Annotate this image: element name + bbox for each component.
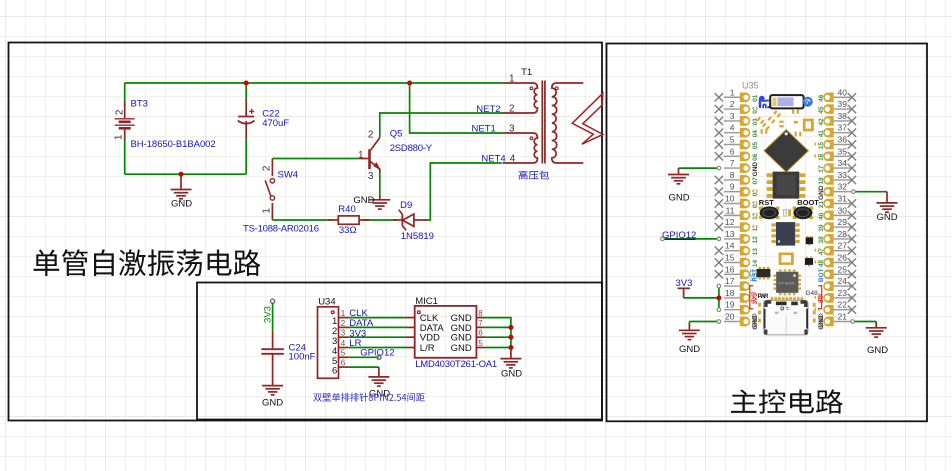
wire: U34.5 GPIO12 stub bbox=[349, 356, 379, 358]
svg-text:46: 46 bbox=[818, 94, 825, 102]
svg-text:45: 45 bbox=[818, 106, 825, 114]
svg-text:1: 1 bbox=[509, 73, 515, 84]
svg-text:41: 41 bbox=[818, 130, 825, 138]
svg-text:06: 06 bbox=[752, 153, 759, 161]
U35 board: main SoC diamond bbox=[764, 130, 809, 173]
svg-text:7: 7 bbox=[478, 319, 483, 328]
svg-text:38: 38 bbox=[818, 236, 825, 244]
svg-text:6: 6 bbox=[478, 329, 483, 338]
U35 board: 5V jumper bracket bbox=[818, 286, 821, 309]
node: pin17 bbox=[717, 284, 721, 288]
power flag 3V3 bbox=[678, 287, 690, 289]
svg-text:2: 2 bbox=[341, 319, 346, 328]
svg-text:13: 13 bbox=[725, 229, 735, 239]
svg-text:L/R: L/R bbox=[420, 343, 435, 354]
wire: U34.1 CLK to MIC1 bbox=[349, 317, 406, 319]
wire: top power rail from BT3 to T1 pin1 bbox=[125, 82, 503, 84]
ground (U34 pin6 GND) bbox=[368, 377, 389, 386]
svg-text:LMD4030T261-OA1: LMD4030T261-OA1 bbox=[415, 359, 497, 370]
svg-text:GND: GND bbox=[451, 343, 472, 354]
svg-text:BT3: BT3 bbox=[131, 99, 148, 110]
switch SW4 bbox=[270, 179, 274, 183]
svg-text:31: 31 bbox=[838, 194, 848, 204]
svg-text:5: 5 bbox=[478, 339, 483, 348]
svg-text:40: 40 bbox=[838, 87, 848, 97]
svg-text:26: 26 bbox=[838, 253, 848, 263]
ground (Q5 emitter GND) bbox=[379, 195, 381, 200]
svg-text:22: 22 bbox=[838, 300, 848, 310]
junction: MIC1 gnd row3 bbox=[508, 335, 513, 340]
junction: MIC1 gnd row2 bbox=[508, 325, 513, 330]
node: GPIO12 dead-end bbox=[377, 355, 381, 359]
svg-text:3: 3 bbox=[509, 124, 515, 135]
svg-text:MIC1: MIC1 bbox=[415, 296, 438, 307]
U35 board: crystal bbox=[779, 253, 794, 265]
svg-text:17: 17 bbox=[725, 276, 735, 286]
svg-text:27: 27 bbox=[838, 241, 848, 251]
svg-text:35: 35 bbox=[838, 146, 848, 156]
wire: R40 to D9 bbox=[363, 219, 396, 221]
svg-text:5V: 5V bbox=[817, 293, 824, 302]
svg-text:2: 2 bbox=[368, 129, 374, 140]
value 高压包 (high voltage pack) bbox=[519, 170, 550, 179]
U35 board: sot23 part A bbox=[806, 237, 813, 244]
svg-text:28: 28 bbox=[838, 229, 848, 239]
U35 board: RST push button bbox=[759, 207, 763, 210]
svg-text:16: 16 bbox=[725, 264, 735, 274]
svg-text:2: 2 bbox=[509, 103, 515, 114]
svg-text:1: 1 bbox=[730, 87, 735, 97]
wire: D9 to NET4 riser to T1 pin4 bbox=[426, 163, 502, 220]
svg-text:21: 21 bbox=[838, 312, 848, 322]
junction: NET1 branch on top rail bbox=[407, 81, 412, 86]
svg-text:07: 07 bbox=[752, 177, 759, 185]
svg-text:7: 7 bbox=[730, 158, 735, 168]
svg-text:1: 1 bbox=[341, 309, 346, 318]
wire: GPIO12 to U35 pin13 bbox=[662, 238, 717, 240]
resistor R40 bbox=[328, 219, 338, 221]
wire: U34.6 to GND bbox=[349, 366, 379, 368]
svg-text:GPIO12: GPIO12 bbox=[360, 347, 394, 358]
svg-text:15: 15 bbox=[725, 253, 735, 263]
svg-text:6: 6 bbox=[341, 359, 346, 368]
connector U34 bbox=[318, 307, 339, 379]
wire: Q5 emitter to GND bbox=[379, 172, 381, 196]
svg-text:GND: GND bbox=[876, 212, 897, 223]
svg-text:39: 39 bbox=[818, 224, 825, 232]
svg-text:11: 11 bbox=[726, 205, 735, 215]
svg-text:6: 6 bbox=[332, 366, 337, 377]
svg-text:5: 5 bbox=[341, 349, 346, 358]
node: pin21 bbox=[851, 320, 855, 324]
svg-text:42: 42 bbox=[818, 118, 825, 126]
svg-text:19: 19 bbox=[725, 300, 735, 310]
wire: MIC1 GND bus bbox=[485, 318, 511, 348]
ground (MIC1 GND) bbox=[510, 348, 512, 359]
svg-text:3: 3 bbox=[341, 329, 346, 338]
wire: U35 pin7 to GND bbox=[679, 167, 718, 169]
U35 board: blue antenna logo bbox=[759, 96, 765, 102]
svg-text:TS-1088-AR02016: TS-1088-AR02016 bbox=[243, 224, 319, 235]
svg-text:RST: RST bbox=[759, 198, 774, 207]
svg-text:U35: U35 bbox=[742, 81, 759, 91]
svg-text:18: 18 bbox=[818, 177, 825, 185]
svg-text:33Ω: 33Ω bbox=[339, 225, 357, 236]
U35 board: BOOT push button bbox=[793, 207, 797, 210]
no-connect crosses (U35 right pins) bbox=[848, 93, 856, 101]
svg-text:5: 5 bbox=[730, 135, 735, 145]
U35 board: USB interface QFN chip bbox=[776, 272, 798, 293]
title 单管自激振荡电路 bbox=[34, 249, 261, 276]
U35 board: mid passives bbox=[784, 209, 787, 216]
wire: C22 bottom stub bbox=[245, 138, 247, 174]
svg-text:G48: G48 bbox=[806, 290, 819, 297]
node: pin19 bbox=[717, 308, 721, 312]
svg-text:PWR: PWR bbox=[758, 294, 769, 300]
svg-text:14: 14 bbox=[725, 241, 735, 251]
junction: GND tap on bottom rail bbox=[179, 172, 184, 177]
node: C24 top dead-end bbox=[271, 299, 275, 303]
U35 board: USB-C connector bbox=[764, 300, 808, 335]
wire: U35 pin32 to GND bbox=[854, 191, 887, 193]
battery BT3 bbox=[124, 101, 126, 118]
U35 board: regulator sot23-5 bbox=[757, 269, 771, 277]
ground (U35 pin20) bbox=[688, 324, 690, 330]
svg-text:U34: U34 bbox=[318, 297, 335, 308]
high-voltage spark symbol bbox=[572, 93, 603, 144]
svg-text:34: 34 bbox=[838, 158, 848, 168]
node: GPIO12 wire right end bbox=[717, 237, 721, 241]
diode D9 bbox=[394, 219, 403, 221]
wire: BT3 bottom vertical bbox=[124, 140, 126, 175]
wire: C22 top stub bbox=[245, 83, 247, 99]
svg-text:3V3: 3V3 bbox=[262, 306, 273, 323]
frame: right circuit sheet box bbox=[607, 44, 928, 422]
svg-text:23: 23 bbox=[838, 288, 848, 298]
svg-text:BH-18650-B1BA002: BH-18650-B1BA002 bbox=[131, 139, 216, 150]
transformer T1 bbox=[503, 83, 538, 113]
U35 board: small passives along pin rows bbox=[753, 190, 758, 193]
node: GPIO12 wire left end bbox=[661, 237, 665, 241]
wire: SW4 bottom to rail bbox=[271, 203, 273, 220]
svg-text:SW4: SW4 bbox=[278, 169, 299, 180]
svg-text:01: 01 bbox=[752, 94, 759, 102]
wire: NET2 from Q5 collector to T1 pin2 bbox=[380, 113, 503, 138]
svg-text:4: 4 bbox=[730, 123, 735, 133]
svg-text:Q5: Q5 bbox=[390, 129, 403, 140]
svg-text:NET2: NET2 bbox=[476, 104, 500, 115]
svg-text:3V3: 3V3 bbox=[751, 291, 758, 303]
svg-text:2SD880-Y: 2SD880-Y bbox=[390, 143, 433, 154]
node: pin32 bbox=[852, 190, 856, 194]
svg-text:39: 39 bbox=[838, 99, 848, 109]
U35 board: 3V3 jumper bracket bbox=[750, 286, 753, 309]
svg-text:14: 14 bbox=[752, 260, 759, 268]
svg-text:3: 3 bbox=[730, 111, 735, 121]
svg-text:RST: RST bbox=[750, 269, 756, 281]
svg-text:32: 32 bbox=[838, 182, 848, 192]
svg-text:29: 29 bbox=[838, 217, 848, 227]
svg-text:NET4: NET4 bbox=[481, 153, 505, 164]
svg-text:1N5819: 1N5819 bbox=[401, 231, 434, 242]
U35 board: passives cluster bbox=[756, 117, 764, 125]
svg-text:2: 2 bbox=[115, 109, 126, 115]
svg-text:30: 30 bbox=[838, 205, 848, 215]
svg-text:40: 40 bbox=[818, 212, 825, 220]
svg-text:13: 13 bbox=[752, 248, 759, 256]
wire: BT3 left vertical bbox=[124, 83, 126, 102]
svg-text:6: 6 bbox=[730, 146, 735, 156]
capacitor C22 bbox=[245, 99, 247, 117]
wire: U35 pin21 to GND bbox=[854, 321, 876, 323]
svg-text:9: 9 bbox=[730, 182, 735, 192]
U35 board: blue button/antenna circle bbox=[803, 97, 813, 107]
capacitor C24 bbox=[272, 331, 274, 348]
wire: U34.4 LR to MIC1 bbox=[349, 347, 406, 349]
svg-text:GND: GND bbox=[501, 368, 522, 379]
svg-text:D9: D9 bbox=[400, 200, 412, 211]
module U35 right pin pads and numbers bbox=[833, 96, 851, 98]
svg-text:GND: GND bbox=[668, 193, 689, 204]
svg-text:8: 8 bbox=[478, 309, 483, 318]
module U35 left pin pads and numbers bbox=[724, 96, 741, 98]
U35 board: SMD LED top bbox=[770, 95, 803, 108]
wire: U34.2 DATA to MIC1 bbox=[349, 326, 406, 328]
svg-text:1: 1 bbox=[114, 134, 125, 140]
svg-text:GND: GND bbox=[867, 345, 888, 356]
svg-text:2: 2 bbox=[262, 165, 273, 171]
wire: C24 top bbox=[272, 303, 274, 331]
wire: U35 pin20 to GND bbox=[689, 321, 717, 323]
wire: SW4 top stub bbox=[271, 159, 273, 177]
svg-text:8: 8 bbox=[730, 170, 735, 180]
svg-text:12: 12 bbox=[752, 236, 759, 244]
wire: U34.3 3V3 to MIC1 bbox=[349, 336, 406, 338]
frame: inner audio sub-box bbox=[197, 283, 602, 420]
svg-text:GND: GND bbox=[818, 313, 825, 328]
frame: left circuit sheet box bbox=[9, 43, 603, 421]
ground (C24 GND) bbox=[262, 386, 283, 395]
wire: 3V3 to U35 pins 17-19 bbox=[684, 297, 719, 299]
svg-text:1: 1 bbox=[262, 208, 273, 214]
svg-text:05: 05 bbox=[752, 142, 759, 150]
svg-text:37: 37 bbox=[838, 123, 848, 133]
svg-text:33: 33 bbox=[838, 170, 848, 180]
svg-text:04: 04 bbox=[752, 130, 759, 138]
wire: bottom rail SW4 to R40 bbox=[272, 219, 332, 221]
ground (U35 pin7) bbox=[678, 168, 680, 174]
junction: C22 top rail bbox=[244, 81, 249, 86]
svg-text:12: 12 bbox=[725, 217, 735, 227]
node: pin7 wire end bbox=[717, 166, 721, 170]
svg-text:T1: T1 bbox=[521, 67, 532, 78]
svg-text:470uF: 470uF bbox=[262, 118, 289, 129]
wire: base wire SW4 to Q5 bbox=[272, 158, 358, 160]
svg-text:4: 4 bbox=[341, 339, 346, 348]
junction: pin18 3V3 bbox=[716, 295, 721, 300]
svg-text:NET1: NET1 bbox=[472, 123, 496, 134]
svg-text:20: 20 bbox=[725, 312, 735, 322]
svg-text:17: 17 bbox=[818, 165, 825, 173]
svg-text:18: 18 bbox=[725, 288, 735, 298]
svg-text:3V3: 3V3 bbox=[676, 278, 693, 289]
ground (U35 pin32) bbox=[886, 192, 888, 203]
svg-text:4: 4 bbox=[510, 153, 516, 164]
no-connect crosses (U35 left pins) bbox=[715, 93, 723, 101]
transistor Q5 bbox=[368, 149, 371, 169]
svg-text:3: 3 bbox=[368, 171, 374, 182]
node: pin20 bbox=[717, 320, 721, 324]
junction: MIC1 gnd row4 bbox=[508, 345, 513, 350]
svg-text:36: 36 bbox=[838, 135, 848, 145]
svg-text:10: 10 bbox=[725, 194, 735, 204]
svg-text:GND: GND bbox=[353, 195, 374, 206]
U35 board: flash chip (SOIC-8) bbox=[773, 172, 800, 199]
note 双壁单排排针8PIN2.54间距 bbox=[313, 393, 424, 402]
svg-text:38: 38 bbox=[838, 111, 848, 121]
svg-text:100nF: 100nF bbox=[289, 352, 316, 363]
svg-text:PY NOVE: PY NOVE bbox=[779, 282, 795, 286]
svg-text:1: 1 bbox=[358, 150, 364, 161]
title 主控电路 bbox=[731, 389, 843, 413]
svg-text:GND: GND bbox=[679, 344, 700, 355]
svg-text:GND: GND bbox=[752, 162, 759, 177]
svg-text:BOOT: BOOT bbox=[797, 198, 819, 207]
wire: NET1 branch vertical from top rail bbox=[410, 83, 503, 133]
U35 board: interface chip bbox=[776, 222, 795, 246]
ground (battery rail GND) bbox=[180, 174, 182, 189]
svg-text:25: 25 bbox=[838, 264, 848, 274]
svg-text:GND: GND bbox=[171, 198, 192, 209]
svg-text:BOT: BOT bbox=[818, 268, 825, 282]
wire: bottom rail BT3 to C22 bbox=[125, 173, 247, 175]
svg-text:GND: GND bbox=[262, 397, 283, 408]
U35 board: sot23 part B bbox=[805, 258, 813, 265]
op-amp MIC1 (mems mic) bbox=[415, 306, 477, 358]
svg-text:24: 24 bbox=[838, 276, 848, 286]
svg-text:GND: GND bbox=[751, 313, 758, 328]
svg-text:2: 2 bbox=[730, 99, 735, 109]
ground (U35 pin21) bbox=[875, 322, 877, 328]
